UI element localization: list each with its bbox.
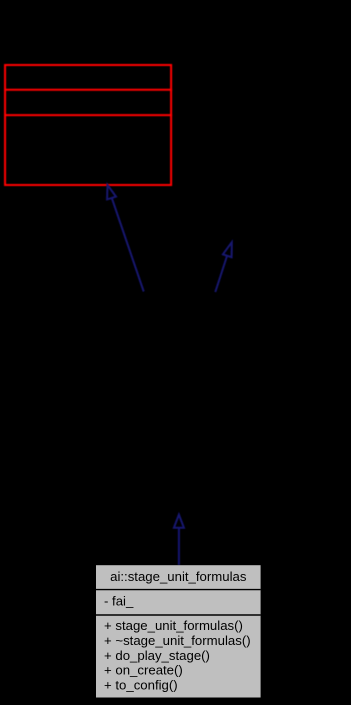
svg-text:- fai_: - fai_ — [104, 594, 134, 609]
svg-text:+ stage_unit_formulas(): + stage_unit_formulas() — [104, 618, 243, 633]
svg-text:+ to_config(): + to_config() — [104, 677, 178, 692]
svg-text:ai::stage_unit_formulas: ai::stage_unit_formulas — [110, 569, 247, 584]
svg-text:+ ~stage_unit_formulas(): + ~stage_unit_formulas() — [104, 633, 251, 648]
svg-text:+ do_play_stage(): + do_play_stage() — [104, 648, 210, 663]
svg-text:+ on_create(): + on_create() — [104, 663, 183, 678]
